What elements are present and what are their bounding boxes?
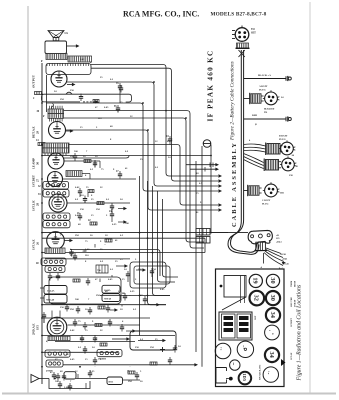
svg-text:28: 28	[36, 203, 40, 207]
plug P5 face	[280, 156, 296, 170]
wire loop R5 inner	[134, 266, 170, 284]
svg-text:PLUG: PLUG	[262, 204, 269, 206]
svg-text:0.02: 0.02	[80, 58, 85, 61]
svg-text:SET: SET	[251, 32, 256, 35]
svg-text:OUTPUT: OUTPUT	[32, 74, 36, 88]
wire loop R4	[49, 277, 121, 304]
svg-text:1M: 1M	[96, 208, 100, 211]
figure1 inner label	[259, 364, 262, 380]
resistor R9	[84, 160, 91, 163]
svg-text:DET: DET	[255, 315, 257, 320]
oscillator coil hatch	[66, 171, 82, 177]
tone control box	[130, 331, 176, 350]
coil L40	[36, 258, 66, 266]
wire drop x152	[153, 186, 171, 296]
component marks v6	[69, 239, 112, 261]
wire loop R2	[42, 94, 130, 102]
coil L50	[45, 350, 70, 357]
wire bus B	[91, 68, 218, 181]
svg-text:TR: TR	[264, 112, 268, 114]
svg-text:0.02: 0.02	[70, 329, 75, 332]
svg-text:34: 34	[269, 312, 276, 319]
tube 34 location	[266, 308, 280, 322]
label IF AMP	[32, 158, 40, 169]
plug P6	[248, 185, 262, 196]
branch wire 1	[244, 78, 286, 80]
wire V5 row	[67, 202, 130, 204]
tube V1 output	[51, 71, 67, 87]
svg-text:RCA MFG. CO., INC.: RCA MFG. CO., INC.	[123, 10, 199, 19]
capacitor C35	[116, 82, 122, 94]
svg-text:2M: 2M	[75, 234, 79, 237]
battery B3	[102, 285, 120, 293]
wire AVC dashed	[83, 100, 99, 103]
capacitor C30	[42, 312, 46, 323]
component marks p	[83, 345, 181, 354]
svg-text:TRIM: TRIM	[291, 280, 293, 287]
svg-text:0.05: 0.05	[108, 278, 113, 281]
svg-text:+B4.5: +B4.5	[276, 241, 283, 243]
coil E location	[263, 367, 278, 382]
tube 30 location	[266, 274, 279, 287]
subtitle MODELS B27-8,BC7-8	[211, 12, 267, 18]
plug P4 face	[279, 140, 295, 154]
svg-text:29: 29	[36, 131, 40, 135]
capacitor C24	[166, 135, 172, 144]
svg-text:0.05: 0.05	[160, 288, 165, 291]
svg-text:1M: 1M	[152, 268, 156, 271]
coil under V6	[45, 248, 65, 254]
tube V2 det	[49, 122, 66, 139]
component marks m	[65, 296, 160, 315]
tube 1D5 location	[239, 372, 252, 385]
volume control box	[64, 372, 123, 385]
svg-text:PLUG: PLUG	[259, 89, 266, 92]
wire bus L	[42, 252, 205, 254]
svg-text:BLK.RED: BLK.RED	[264, 109, 275, 111]
spring link	[52, 104, 54, 110]
svg-text:0.25: 0.25	[90, 370, 95, 373]
dot marker	[220, 285, 223, 288]
svg-text:0.25: 0.25	[130, 290, 135, 293]
capacitor C55	[119, 85, 123, 93]
terminal lug 1	[286, 76, 291, 81]
svg-text:0.02: 0.02	[85, 248, 90, 251]
wire bus P	[42, 351, 118, 353]
arrow bus C	[218, 184, 222, 187]
coil L51	[97, 350, 122, 361]
transformer T3 winding	[46, 54, 67, 60]
svg-text:0.25: 0.25	[112, 223, 117, 226]
capacitor C5	[79, 94, 83, 102]
svg-text:26: 26	[36, 242, 40, 246]
svg-text:Figure 1—Radiotron and Coil Lo: Figure 1—Radiotron and Coil Locations	[297, 284, 303, 381]
knob dot	[226, 377, 233, 381]
wire bus D	[46, 103, 218, 191]
wire to cable a	[186, 163, 219, 168]
arrow bus B	[218, 179, 222, 182]
svg-text:1: 1	[268, 330, 270, 331]
IF transformer L9 winding	[48, 114, 64, 119]
wire bus N	[100, 295, 170, 297]
label 30	[37, 110, 46, 118]
tube V4 1st-det	[48, 172, 63, 187]
component marks af	[48, 264, 128, 280]
svg-text:32: 32	[253, 295, 260, 301]
plug prongs	[255, 242, 268, 251]
svg-text:1M: 1M	[150, 346, 154, 349]
svg-text:27: 27	[36, 179, 40, 183]
svg-text:2M: 2M	[70, 308, 74, 311]
wire V1 plate	[67, 83, 76, 86]
wire rail x211	[210, 145, 212, 233]
wire drop x147	[148, 181, 167, 305]
wire R2 right hook	[126, 94, 132, 102]
arrow bus H	[218, 203, 222, 206]
svg-text:BLACK +A: BLACK +A	[258, 74, 271, 77]
IF transformer L8 winding	[48, 109, 64, 114]
wire bus F	[60, 118, 204, 242]
plug P6 label	[262, 192, 285, 206]
cable crossover	[239, 50, 245, 57]
coil D location	[230, 360, 240, 370]
cable connector socket	[235, 26, 249, 42]
cable S-bend	[228, 213, 259, 254]
tube V7 2nd-af	[47, 317, 67, 337]
figure1 label e	[255, 315, 257, 320]
winding ticks IF1 top	[50, 106, 63, 109]
wire row y259	[45, 258, 130, 260]
arrow bus D	[218, 189, 222, 192]
coil L33	[38, 190, 69, 198]
wire left rail	[41, 63, 43, 384]
capacitor C60	[56, 373, 66, 381]
svg-text:2M: 2M	[128, 380, 132, 383]
wire plate lead	[67, 44, 80, 47]
arrow bus A	[218, 174, 222, 177]
coil L32	[38, 182, 69, 190]
plug P2 face	[263, 90, 280, 105]
svg-text:+B45: +B45	[282, 259, 288, 261]
branch wire 2	[244, 98, 250, 100]
svg-text:30: 30	[269, 277, 276, 283]
svg-text:CABLE ASSEMBLY: CABLE ASSEMBLY	[231, 141, 238, 227]
IF transformer L6 winding	[43, 143, 69, 153]
wire to plug stub	[211, 232, 228, 234]
plug P4 label	[249, 135, 295, 158]
wire V2 plate	[66, 129, 74, 132]
tick marks	[45, 153, 66, 155]
wire loop R5	[130, 262, 166, 288]
component marks v5	[110, 203, 127, 211]
svg-text:F: F	[41, 59, 43, 63]
plug P4	[266, 143, 283, 156]
wire bus K	[42, 237, 205, 239]
component marks pad	[109, 210, 127, 224]
wire bus O	[42, 335, 175, 337]
capacitor C12	[73, 153, 77, 161]
wire drop x139	[139, 176, 141, 336]
plug P5 label	[289, 165, 298, 177]
gang condenser block	[219, 312, 252, 340]
resistor R6	[93, 100, 99, 103]
component marks bottom	[50, 370, 139, 391]
label OUTPUT	[32, 74, 36, 88]
svg-text:aw: aw	[232, 363, 234, 366]
inductor hop	[66, 92, 72, 94]
wire left rail 2	[46, 75, 48, 112]
svg-text:OSC.TRF: OSC.TRF	[291, 297, 293, 307]
capacitor C19	[83, 196, 87, 204]
wire bus A	[91, 65, 218, 177]
coil L41	[45, 266, 65, 273]
plug P2 label	[259, 85, 284, 114]
pointer wedge	[281, 359, 286, 366]
label F	[41, 59, 43, 63]
winding ticks IF1 bot	[50, 119, 63, 122]
label OSC	[32, 200, 40, 211]
tube V6 1st-af	[47, 232, 65, 250]
wire drop x162	[163, 199, 179, 277]
wire to cable b	[190, 167, 219, 172]
tube 30b location	[266, 291, 280, 305]
speaker LS1	[48, 31, 68, 41]
resistor R20	[97, 202, 104, 205]
plug P2	[250, 93, 264, 104]
wire bus H	[42, 145, 218, 206]
terminal lug 3	[286, 116, 291, 121]
svg-text:2M: 2M	[70, 155, 74, 158]
branch wire 3	[244, 118, 286, 120]
component stubs	[44, 94, 175, 389]
wire v7 plate	[68, 324, 141, 326]
socket ticks	[232, 31, 235, 39]
svg-text:30: 30	[36, 162, 40, 166]
svg-text:0.05: 0.05	[104, 106, 109, 109]
wire bus E	[52, 111, 204, 248]
svg-text:BR: BR	[122, 293, 126, 295]
component marks r4	[73, 268, 154, 301]
battery B2	[44, 295, 67, 304]
coil L52	[46, 360, 63, 373]
wire bus J	[42, 232, 248, 234]
battery B1	[44, 286, 67, 295]
coil A location	[265, 325, 280, 340]
branch 1 label	[258, 74, 271, 77]
wire rail x196	[195, 161, 197, 352]
branch 3 label	[252, 114, 258, 126]
figure1 label d	[290, 352, 293, 360]
terminal resistors	[196, 229, 210, 244]
grid resistor R2	[33, 92, 42, 101]
coil L34	[43, 213, 70, 220]
winding ticks	[47, 63, 89, 66]
wire drop x157	[158, 191, 176, 282]
label 1ST AF	[32, 239, 40, 250]
component row y341	[46, 335, 135, 346]
svg-text:1ST.DET: 1ST.DET	[291, 317, 293, 327]
capacitor C55b	[114, 105, 120, 113]
figure1 label c	[291, 317, 293, 327]
plug P5	[264, 159, 281, 172]
svg-text:+E: +E	[66, 353, 69, 356]
tube 19 location	[249, 274, 262, 287]
socket label	[251, 28, 256, 35]
svg-text:30: 30	[269, 295, 276, 301]
svg-text:+B: +B	[276, 235, 279, 237]
svg-text:7000 40: 7000 40	[104, 298, 112, 300]
wire loop R1	[46, 64, 91, 75]
component marks v7	[73, 319, 136, 333]
battery plug body	[248, 230, 272, 243]
wire bus G	[65, 130, 218, 210]
output transformer T3 box	[45, 37, 67, 54]
caption figure 1	[297, 284, 303, 381]
transformer T3 secondary winding	[68, 56, 92, 62]
note IF PEAK 460 KC	[207, 49, 215, 121]
cable grip	[236, 43, 250, 48]
coil under V7	[48, 336, 70, 340]
resistor R14	[36, 139, 45, 146]
svg-text:0.02: 0.02	[75, 186, 80, 189]
battery cable	[241, 50, 243, 213]
coil L35	[43, 221, 70, 228]
tube 32 location	[249, 291, 264, 306]
svg-text:1M: 1M	[60, 98, 64, 101]
svg-text:0.05: 0.05	[75, 214, 80, 217]
plug wire fan	[264, 248, 286, 266]
tube 34b location	[265, 348, 279, 362]
wire rail x205	[204, 238, 206, 252]
figure1 chassis outline	[216, 269, 285, 387]
figure1 label a	[291, 280, 297, 287]
wire V6 plate	[65, 239, 74, 242]
resistor R22	[88, 219, 97, 225]
svg-text:0.05: 0.05	[70, 358, 75, 361]
capacitor C17	[116, 170, 122, 179]
svg-text:MODELS B27-8,BC7-8: MODELS B27-8,BC7-8	[211, 12, 267, 18]
capacitor C21	[77, 212, 82, 221]
component marks v3	[93, 160, 100, 168]
corner box	[216, 368, 227, 384]
coil C location	[237, 341, 253, 357]
tube V3 if-amp	[48, 153, 64, 169]
svg-text:104.4A: 104.4A	[47, 290, 55, 293]
battery leads	[40, 288, 44, 298]
title RCA MFG. CO., INC.	[123, 10, 199, 19]
coil B location	[215, 343, 231, 359]
wire v3 plate	[64, 156, 129, 159]
phi adjust symbol	[203, 140, 211, 148]
wire bus Q	[63, 363, 198, 366]
wire rail x202	[201, 146, 203, 367]
label CABLE ASSEMBLY	[231, 141, 238, 227]
label DET-AF	[32, 126, 40, 138]
wire bus M	[42, 304, 166, 306]
branch fan 4	[244, 144, 266, 169]
arrow bus G	[218, 208, 222, 211]
svg-text:SPEAKER.OSC: SPEAKER.OSC	[259, 364, 262, 380]
svg-text:RED: RED	[252, 114, 257, 117]
wire bus K2	[70, 250, 160, 277]
svg-text:34: 34	[268, 352, 275, 359]
label 1ST DET	[32, 175, 40, 187]
svg-text:7000+40: 7000+40	[46, 300, 55, 302]
wire V4 row	[63, 178, 137, 180]
tube V5 osc	[49, 194, 67, 212]
svg-text:19: 19	[252, 277, 259, 283]
svg-text:1D5: 1D5	[242, 373, 247, 381]
plug fan labels	[260, 235, 290, 270]
component value labels	[54, 58, 203, 383]
page right edge	[309, 2, 311, 393]
wire v7 row	[42, 317, 150, 319]
wire V3 row	[64, 160, 100, 162]
page bottom edge	[2, 393, 336, 395]
svg-text:1ST.AF: 1ST.AF	[290, 352, 293, 360]
svg-text:1M: 1M	[96, 294, 100, 297]
svg-text:Figure 2—Battery Cable Connect: Figure 2—Battery Cable Connections	[230, 61, 236, 141]
wire bottom loop	[49, 379, 140, 390]
svg-text:+B 90: +B 90	[280, 254, 287, 256]
wire osc stub	[82, 174, 90, 180]
plug P6 face	[263, 182, 280, 197]
svg-text:PLUG: PLUG	[279, 138, 286, 141]
figure1 label b	[291, 297, 297, 307]
svg-text:1F5: 1F5	[36, 325, 40, 330]
battery B4	[102, 294, 120, 302]
wire bus C	[67, 82, 218, 186]
caption figure 2	[230, 61, 236, 141]
svg-text:LS: LS	[65, 32, 69, 35]
label 2ND AF	[32, 323, 40, 335]
page left edge	[27, 6, 29, 393]
antenna input	[31, 372, 56, 383]
svg-text:C BATT: C BATT	[262, 199, 271, 202]
svg-text:0.25: 0.25	[167, 140, 172, 143]
speaker frame	[222, 276, 246, 311]
branch wire 5	[244, 190, 248, 192]
wire bus I	[42, 155, 211, 157]
component marks q	[93, 357, 172, 373]
capacitor C18	[78, 188, 94, 196]
svg-text:IF PEAK 460 KC: IF PEAK 460 KC	[207, 49, 215, 121]
